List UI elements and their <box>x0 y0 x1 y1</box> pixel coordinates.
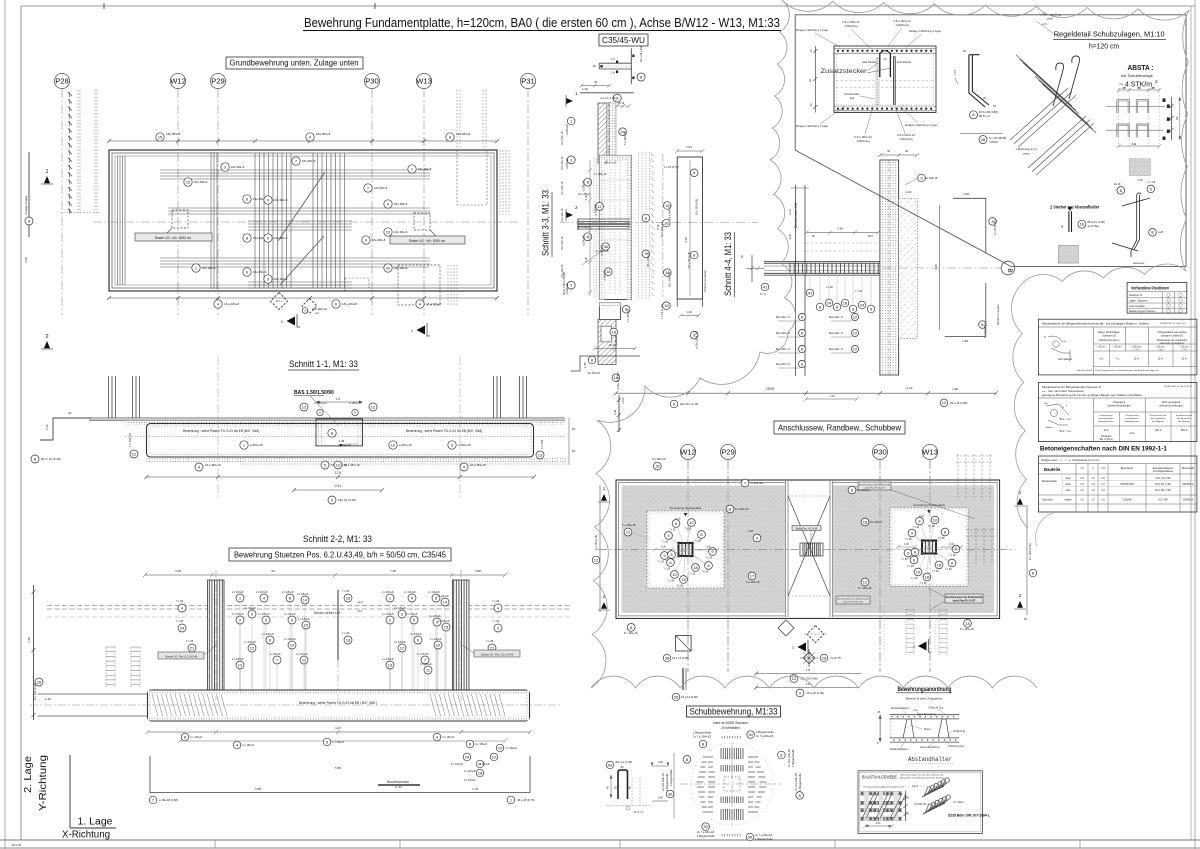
svg-text:40: 40 <box>68 411 72 415</box>
svg-text:1 x 18 (0.58): 1 x 18 (0.58) <box>983 323 987 338</box>
svg-text:Zulage 1 Richtung 1 Lage: Zulage 1 Richtung 1 Lage <box>796 28 828 32</box>
table Mindestwerte 2 <box>1038 383 1197 442</box>
S1 left step profile <box>40 418 92 440</box>
wall detail: main wall hatched strip <box>880 160 899 375</box>
plan bottom dimension line <box>109 297 497 299</box>
plan left edge bar cluster <box>117 156 119 285</box>
svg-text:12: 12 <box>853 314 858 319</box>
svg-text:2 x 184: 2 x 184 <box>540 439 544 449</box>
svg-text:18 a 14 (2.98): 18 a 14 (2.98) <box>681 695 698 699</box>
S2 circled label fields <box>236 594 244 602</box>
svg-text:2x 7 a 184+18: 2x 7 a 184+18 <box>756 734 774 738</box>
svg-text:Verlege-mass t: Verlege-mass t <box>1041 458 1059 462</box>
S3 dotted strips right <box>637 152 639 300</box>
svg-text:Raster UG : b0= 5000 cm: Raster UG : b0= 5000 cm <box>155 236 192 240</box>
svg-text:7 x 28: 7 x 28 <box>176 619 184 623</box>
svg-text:2.30: 2.30 <box>876 822 881 825</box>
S3 bottom blocks <box>599 303 620 320</box>
svg-text:4 x 184+8: 4 x 184+8 <box>442 735 454 739</box>
svg-text:7 x 28: 7 x 28 <box>928 525 935 528</box>
svg-text:10: 10 <box>386 229 391 234</box>
svg-text:XC2, WL1, WF: XC2, WL1, WF <box>1155 483 1171 486</box>
svg-text:41: 41 <box>763 284 768 289</box>
svg-text:W12: W12 <box>170 77 186 86</box>
section marker 4 below right plan <box>918 642 927 651</box>
bottom title strip <box>0 839 1200 841</box>
svg-text:7 x 28: 7 x 28 <box>905 538 912 541</box>
svg-text:Zulage 1 Richtung 2 Lage: Zulage 1 Richtung 2 Lage <box>905 123 937 127</box>
svg-text:2 x 184+8: 2 x 184+8 <box>298 617 310 621</box>
svg-text:Schweissung: Schweissung <box>1100 415 1114 417</box>
svg-text:a19: a19 <box>850 96 855 100</box>
svg-text:Biegebereiches: Biegebereiches <box>1098 420 1114 423</box>
svg-text:24: 24 <box>180 625 185 630</box>
svg-text:1.98: 1.98 <box>583 362 587 368</box>
svg-text:7 x 28: 7 x 28 <box>945 568 952 571</box>
svg-text:5a 184+18: 5a 184+18 <box>588 372 600 375</box>
S1 main band <box>147 424 534 458</box>
svg-text:18: 18 <box>664 220 669 225</box>
svg-text:10: 10 <box>391 442 396 447</box>
svg-text:a 28: a 28 <box>1158 230 1164 234</box>
svg-text:1.63: 1.63 <box>686 145 692 149</box>
svg-text:8 x 184 (4.38): 8 x 184 (4.38) <box>1028 543 1032 560</box>
svg-text:18 a 184+18: 18 a 184+18 <box>561 131 564 145</box>
svg-text:4.78: 4.78 <box>472 787 478 791</box>
svg-text:28: 28 <box>674 694 679 699</box>
svg-text:Bossenverdan: Bossenverdan <box>387 780 409 784</box>
svg-text:W13: W13 <box>922 448 938 457</box>
svg-text:DIN EN 1992-1-1 Tab 8.1 (D): DIN EN 1992-1-1 Tab 8.1 (D) <box>1160 323 1186 325</box>
S1 lower dim rows <box>130 450 138 458</box>
svg-text:35/000 A: 35/000 A <box>1183 498 1194 502</box>
svg-text:Y-Richtung: Y-Richtung <box>38 755 49 811</box>
svg-text:7 x 28: 7 x 28 <box>342 589 350 593</box>
svg-text:7 x 28: 7 x 28 <box>486 639 494 643</box>
plan horizontal centerline <box>93 221 520 223</box>
svg-text:Abstandsklappen: Abstandsklappen <box>890 748 909 751</box>
svg-text:Mindestwerte der Biegerollendu: Mindestwerte der Biegerollendurchmesser … <box>1042 322 1104 326</box>
plan central mesh left cluster <box>254 153 256 288</box>
svg-text:2 x 184+8: 2 x 184+8 <box>464 778 476 782</box>
svg-text:4: 4 <box>913 645 915 649</box>
svg-text:18 a 184+18: 18 a 184+18 <box>668 272 672 287</box>
svg-text:18: 18 <box>863 519 868 524</box>
S1 bottom small dim <box>294 489 382 491</box>
white center band <box>785 481 833 617</box>
svg-text:1.Biegeschafte: 1.Biegeschafte <box>670 769 673 786</box>
svg-text:15: 15 <box>186 179 191 184</box>
svg-text:18 a 18 (3.98): 18 a 18 (3.98) <box>807 691 824 695</box>
svg-text:der Biegung: der Biegung <box>1152 420 1165 423</box>
svg-text:4 a: 4 a <box>1099 357 1103 361</box>
svg-text:t cm: t cm <box>1101 467 1106 470</box>
svg-text:1.Biegeschafte: 1.Biegeschafte <box>798 773 802 791</box>
S3 crossing beam to left <box>578 218 630 220</box>
svg-text:38: 38 <box>603 244 608 249</box>
section arrows near 3-3 <box>566 98 573 104</box>
svg-text:18 a 384+8: 18 a 384+8 <box>342 302 357 306</box>
svg-text:Betonguete: Betonguete <box>1121 467 1134 470</box>
svg-text:Decke ueber UG: Decke ueber UG <box>794 202 798 228</box>
svg-text:a 18: a 18 <box>919 515 924 518</box>
svg-text:XC2, XA1, WF: XC2, XA1, WF <box>1155 477 1171 480</box>
svg-text:2a 18: 2a 18 <box>1114 182 1121 186</box>
svg-text:10: 10 <box>290 642 295 647</box>
svg-text:18 a 184+1 2: 18 a 184+1 2 <box>660 221 664 237</box>
svg-text:Biegebereiches: Biegebereiches <box>1124 420 1140 423</box>
svg-text:unten: unten <box>1022 152 1030 156</box>
right plan label box bottom <box>945 594 983 603</box>
S3 main wall box <box>599 155 631 299</box>
S1 labels above central box <box>300 403 308 411</box>
BSG mesh diagram <box>860 792 906 821</box>
S2 left column hatched <box>208 580 225 690</box>
svg-text:< 50 mm: < 50 mm <box>1180 346 1189 349</box>
svg-text:2 x 184+8: 2 x 184+8 <box>232 612 244 616</box>
svg-text:W12: W12 <box>680 448 696 457</box>
revision cloud boundary <box>591 0 1037 688</box>
svg-text:7 a: 7 a <box>1115 357 1119 361</box>
svg-text:Betoneigenschaften nach DIN EN: Betoneigenschaften nach DIN EN 1992-1-1 <box>1040 446 1167 453</box>
svg-text:P31: P31 <box>521 77 535 86</box>
svg-text:2 x 184+8: 2 x 184+8 <box>284 612 296 616</box>
table2 bend diagram <box>1046 404 1069 425</box>
svg-text:1.08: 1.08 <box>661 546 666 549</box>
svg-text:1.8: 1.8 <box>611 57 615 61</box>
svg-text:24: 24 <box>465 754 470 759</box>
svg-text:inds Stecker: inds Stecker <box>897 60 911 64</box>
svg-text:13: 13 <box>538 452 543 457</box>
svg-text:2 x 184+8: 2 x 184+8 <box>394 606 406 610</box>
svg-text:18a 384+8: 18a 384+8 <box>231 165 245 169</box>
svg-text:a 184+18: a 184+18 <box>594 204 597 215</box>
svg-text:18a 384+8: 18a 384+8 <box>274 198 288 202</box>
svg-text:18a 384+8: 18a 384+8 <box>418 167 432 171</box>
svg-text:13: 13 <box>388 662 393 667</box>
below plan diamonds <box>778 620 794 636</box>
svg-text:-1.20: -1.20 <box>44 697 51 701</box>
svg-text:Betondeckl: Betondeckl <box>1182 467 1194 470</box>
S1 axis dashdot verticals <box>217 356 219 500</box>
svg-text:8 x 28 (4.78): 8 x 28 (4.78) <box>594 535 598 550</box>
right plan second bottom label <box>836 596 870 604</box>
S2 left vertical dim <box>33 585 35 720</box>
svg-text:+3.17: +3.17 <box>788 208 792 215</box>
svg-text:48 a 28 (8.78): 48 a 28 (8.78) <box>517 798 534 802</box>
svg-text:18a 384+8: 18a 384+8 <box>166 132 181 136</box>
svg-text:18 a 384+8: 18 a 384+8 <box>578 226 591 229</box>
svg-text:< 20 mm: < 20 mm <box>1097 346 1106 349</box>
Bew. chairs <box>903 719 949 738</box>
label Schubbewehrung <box>687 706 781 717</box>
svg-text:-1.48: -1.48 <box>338 439 345 443</box>
S1 right edge dims <box>568 418 570 465</box>
svg-text:P30: P30 <box>365 77 379 86</box>
svg-text:a %: a % <box>1042 22 1047 26</box>
svg-text:2x 7 a 184+18: 2x 7 a 184+18 <box>693 735 711 739</box>
right bent bar detail <box>1112 193 1150 257</box>
svg-text:Anschlussbew. ber Endenwande: Anschlussbew. ber Endenwande <box>837 598 869 601</box>
svg-text:* Wird von D(min) + 1.5 s/m2 a: * Wird von D(min) + 1.5 s/m2 angerechnet… <box>1076 369 1159 372</box>
plan central mesh right cluster <box>312 153 314 288</box>
svg-text:P30: P30 <box>873 448 887 457</box>
svg-text:20 a: 20 a <box>1181 357 1187 361</box>
svg-text:W13: W13 <box>416 77 432 86</box>
svg-text:18: 18 <box>965 621 970 626</box>
svg-text:18: 18 <box>925 574 930 579</box>
svg-text:P29: P29 <box>211 77 225 86</box>
svg-text:Zusatzstecker: Zusatzstecker <box>821 68 868 75</box>
svg-text:18: 18 <box>606 269 611 274</box>
svg-text:Stabdurchmesser a: Stabdurchmesser a <box>1099 339 1120 342</box>
svg-text:Stuetzen: Stuetzen <box>1042 498 1053 502</box>
center band middle ladder <box>803 543 820 556</box>
svg-text:a 18/4+13: a 18/4+13 <box>314 401 327 405</box>
svg-text:C35/45-WU: C35/45-WU <box>602 36 645 45</box>
svg-text:12: 12 <box>132 451 137 456</box>
svg-text:5 a 184+18: 5 a 184+18 <box>626 308 630 322</box>
axis W12 <box>170 73 185 88</box>
svg-text:Anmerkung Stuetzenabst: Anmerkung Stuetzenabst <box>913 503 945 507</box>
svg-text:10: 10 <box>933 517 938 522</box>
column detail W12 <box>647 511 724 588</box>
svg-text:1.0: 1.0 <box>1132 142 1137 146</box>
svg-text:7 x 28: 7 x 28 <box>669 529 676 532</box>
Schub dim brackets top <box>652 765 668 767</box>
svg-text:1.40: 1.40 <box>582 87 588 91</box>
svg-text:> 20 mm: > 20 mm <box>1113 346 1122 349</box>
right plan label box top right <box>858 482 891 490</box>
svg-text:innerhalb des: innerhalb des <box>1125 417 1139 420</box>
S2 top dim line <box>145 574 505 576</box>
S2 slab hatching groups near columns <box>152 694 158 716</box>
svg-text:2 x 184+8: 2 x 184+8 <box>437 594 449 598</box>
svg-text:1 x 18 (0.58): 1 x 18 (0.58) <box>993 220 997 235</box>
svg-text:18 a 384+18: 18 a 384+18 <box>470 463 486 467</box>
svg-text:1 Richtung: 1 Richtung <box>856 139 870 143</box>
svg-text:Schweissung auf: Schweissung auf <box>1150 415 1167 417</box>
svg-text:38: 38 <box>665 655 670 660</box>
label C35/45-WU <box>599 34 648 46</box>
svg-text:2 x 184+8: 2 x 184+8 <box>262 632 274 636</box>
S2 right column hatched <box>453 580 470 690</box>
svg-text:18a 384+18: 18a 384+18 <box>312 307 327 311</box>
below plan cross symbol <box>803 652 814 663</box>
svg-text:Anschlussbew. ber Endenwande: Anschlussbew. ber Endenwande <box>945 596 983 599</box>
svg-text:18 a 384+8: 18 a 384+8 <box>224 302 239 306</box>
svg-text:3.08: 3.08 <box>475 569 481 573</box>
S2 below-band dims <box>148 731 531 733</box>
pit dashed square right <box>414 213 430 230</box>
svg-text:Anmerkung Stuetzenabst: Anmerkung Stuetzenabst <box>670 506 702 510</box>
svg-text:Matten: Matten <box>1046 426 1053 429</box>
svg-text:4.48: 4.48 <box>934 264 938 270</box>
S2 dashed ladders left <box>105 647 107 688</box>
svg-text:a 384+18: a 384+18 <box>250 443 263 447</box>
svg-text:Zulage 1 Richtung 1 Lage: Zulage 1 Richtung 1 Lage <box>796 124 828 128</box>
svg-text:18: 18 <box>592 64 596 68</box>
svg-text:1.16: 1.16 <box>953 69 957 75</box>
svg-text:> 50 mm: > 50 mm <box>1156 346 1165 349</box>
left axis legend line <box>28 152 30 237</box>
svg-text:7 x 28: 7 x 28 <box>492 619 500 623</box>
svg-text:2 x 184+8: 2 x 184+8 <box>297 592 309 596</box>
svg-text:41: 41 <box>808 290 813 295</box>
svg-text:BAS 1.50/1.50/90: BAS 1.50/1.50/90 <box>294 390 334 396</box>
svg-text:8 a 184+8: 8 a 184+8 <box>870 520 883 524</box>
svg-text:60: 60 <box>572 449 576 453</box>
svg-text:der Zugbelaste: der Zugbelaste <box>1151 417 1166 420</box>
svg-text:4 x 184+8: 4 x 184+8 <box>190 735 202 739</box>
svg-text:2x 13a 184+18: 2x 13a 184+18 <box>661 773 665 791</box>
svg-text:30: 30 <box>748 834 753 839</box>
beam label rows lower <box>798 313 805 320</box>
svg-text:1.8: 1.8 <box>806 668 811 672</box>
svg-text:Grundbewehrung unten, Zulage u: Grundbewehrung unten, Zulage unten <box>230 59 359 68</box>
svg-text:Zulage Zulage: Zulage Zulage <box>24 195 28 215</box>
svg-text:2 x 184+8: 2 x 184+8 <box>430 637 442 641</box>
svg-text:35/50/8 A: 35/50/8 A <box>1183 482 1194 486</box>
svg-text:obere Bewehrung: obere Bewehrung <box>917 713 937 716</box>
svg-text:DIN EN 1992-1-1 Tab 8.1 (D) B: DIN EN 1992-1-1 Tab 8.1 (D) B <box>1164 386 1192 388</box>
svg-text:Anschlussew, Randbew., Schubbe: Anschlussew, Randbew., Schubbew <box>778 423 902 433</box>
svg-text:Bewehrung Fundamentplatte, h=1: Bewehrung Fundamentplatte, h=120cm, BA0 … <box>304 16 780 30</box>
right plan body <box>616 480 1000 618</box>
svg-text:10: 10 <box>689 520 694 525</box>
svg-text:seitenteilig verfuegbaren: seitenteilig verfuegbaren <box>1159 342 1185 345</box>
svg-text:Tab. N (20 a): Tab. N (20 a) <box>1099 439 1113 441</box>
svg-text:10: 10 <box>916 569 921 574</box>
svg-text:1.98: 1.98 <box>962 339 968 343</box>
svg-text:3: 3 <box>281 320 283 324</box>
svg-text:Stoerer ersetzen: Stoerer ersetzen <box>703 269 707 292</box>
S2 column center dashdot <box>215 570 217 700</box>
svg-text:18a 384+8: 18a 384+8 <box>456 132 471 136</box>
svg-text:a 184+18: a 184+18 <box>565 124 569 135</box>
svg-text:2 x 184+8: 2 x 184+8 <box>232 590 244 594</box>
svg-text:4.48: 4.48 <box>24 257 28 263</box>
Schub grid detail <box>691 743 773 825</box>
svg-text:1.40: 1.40 <box>585 195 588 200</box>
svg-text:mit Schubbzulage: mit Schubbzulage <box>1121 73 1154 78</box>
svg-text:18a 384+8: 18a 384+8 <box>302 159 316 163</box>
svg-text:18 a 14 (2.98): 18 a 14 (2.98) <box>672 656 689 660</box>
svg-text:15: 15 <box>304 622 309 627</box>
svg-text:18.98: 18.98 <box>766 387 774 391</box>
label Anschlussew box <box>774 421 905 434</box>
svg-text:18a 384+8: 18a 384+8 <box>372 238 386 242</box>
column detail W13 <box>890 508 968 586</box>
svg-text:38 18: 38 18 <box>618 102 625 105</box>
svg-text:Bewehrung : siehe Plaene FU-S-: Bewehrung : siehe Plaene FU-S-03 bis EB … <box>299 701 377 705</box>
svg-text:1.08: 1.08 <box>904 543 909 546</box>
svg-text:12: 12 <box>853 330 858 335</box>
svg-text:Expositionsklassen: Expositionsklassen <box>1153 467 1174 470</box>
svg-text:Abstandsklappen: Abstandsklappen <box>891 707 910 710</box>
svg-text:1 x 18 (0.78): 1 x 18 (0.78) <box>664 165 679 169</box>
svg-text:10: 10 <box>672 572 677 577</box>
svg-text:oben: oben <box>1065 477 1071 480</box>
svg-text:18a 384+8: 18a 384+8 <box>394 230 408 234</box>
svg-text:2 x 184+8: 2 x 184+8 <box>269 652 281 656</box>
Schub left vertical dim <box>673 753 675 818</box>
svg-text:2 x 184+8: 2 x 184+8 <box>406 612 418 616</box>
svg-text:a 18a 28 (4.88): a 18a 28 (4.88) <box>159 798 178 802</box>
svg-text:10: 10 <box>386 265 391 270</box>
svg-text:Dmin: Dmin <box>1061 341 1067 343</box>
dotted bar pairs right of W13 <box>456 90 458 148</box>
svg-text:1 x 18 (0.78): 1 x 18 (0.78) <box>660 304 664 319</box>
svg-text:8 a 184+18: 8 a 184+18 <box>735 507 749 511</box>
S2 Decke ueber UG dashed lines <box>47 605 570 607</box>
svg-text:50 a > 4 a: 50 a > 4 a <box>1059 430 1071 433</box>
svg-text:2.48: 2.48 <box>837 227 843 231</box>
svg-text:7 x 28: 7 x 28 <box>342 631 350 635</box>
svg-text:S235 Bder DIN 107-1984-L: S235 Bder DIN 107-1984-L <box>948 814 990 818</box>
svg-text:35: 35 <box>1122 86 1126 90</box>
svg-text:20 a: 20 a <box>1104 429 1109 432</box>
svg-text:8 x 184+18: 8 x 184+18 <box>624 631 638 635</box>
svg-text:500 a: 500 a <box>1181 429 1188 432</box>
svg-text:18 a 184+18: 18 a 184+18 <box>561 156 564 170</box>
S3 bottom foot <box>595 348 635 350</box>
svg-text:-4.42: -4.42 <box>788 234 792 240</box>
svg-text:7 x 28: 7 x 28 <box>695 540 702 543</box>
svg-text:unter de 50/50 Stuetzen: unter de 50/50 Stuetzen <box>713 721 748 725</box>
dashed corner rect top-right of plan <box>457 150 487 205</box>
svg-text:1.Biegeschafte: 1.Biegeschafte <box>791 749 795 767</box>
svg-text:12: 12 <box>863 579 868 584</box>
horizontal centerline right plan <box>598 549 1012 551</box>
svg-text:18: 18 <box>664 303 669 308</box>
table Betoneigenschaften <box>1038 456 1197 512</box>
svg-text:-0.2: -0.2 <box>357 609 363 613</box>
svg-text:Typ B: Typ B <box>912 785 919 788</box>
svg-text:7a 184+18: 7a 184+18 <box>925 176 938 180</box>
svg-text:seitlich: seitlich <box>1064 499 1072 502</box>
S1 central box <box>316 419 363 446</box>
svg-text:7a 18.78: 7a 18.78 <box>830 656 841 660</box>
svg-text:1.Biegeschafte: 1.Biegeschafte <box>665 773 669 791</box>
left margin rebar marks near P28 <box>68 92 72 96</box>
svg-text:12: 12 <box>400 645 405 650</box>
below plan dim lines <box>756 673 862 675</box>
plan horizontal bar rows <box>160 169 430 171</box>
svg-text:18: 18 <box>937 562 942 567</box>
svg-text:unten: unten <box>1065 483 1072 486</box>
svg-text:18: 18 <box>1175 116 1179 120</box>
svg-text:35: 35 <box>1137 86 1141 90</box>
axis P29 right plan <box>720 444 735 459</box>
svg-text:Feuchtigkeitsklasse: Feuchtigkeitsklasse <box>1153 470 1174 473</box>
svg-text:9a: 9a <box>608 762 613 767</box>
svg-text:20 a: 20 a <box>1130 432 1135 435</box>
svg-text:2. Lage: 2. Lage <box>23 756 34 793</box>
svg-text:1 Richtung: 1 Richtung <box>895 23 909 27</box>
svg-text:ruhende Einwirkungen: ruhende Einwirkungen <box>1107 405 1131 408</box>
wall detail: right hatched strip <box>899 198 918 338</box>
svg-text:8 a 184+8: 8 a 184+8 <box>857 488 870 492</box>
svg-text:Bew.448 + 8: Bew.448 + 8 <box>776 363 790 366</box>
svg-text:1.98: 1.98 <box>657 796 663 800</box>
svg-text:21: 21 <box>190 645 195 650</box>
label box Raster UG left <box>135 233 212 241</box>
svg-text:4 x 184+8: 4 x 184+8 <box>242 743 254 747</box>
svg-text:18a 384+8: 18a 384+8 <box>274 277 288 281</box>
svg-text:+3.0: +3.0 <box>357 600 363 604</box>
svg-text:18 a 384+18: 18 a 384+18 <box>344 463 360 467</box>
